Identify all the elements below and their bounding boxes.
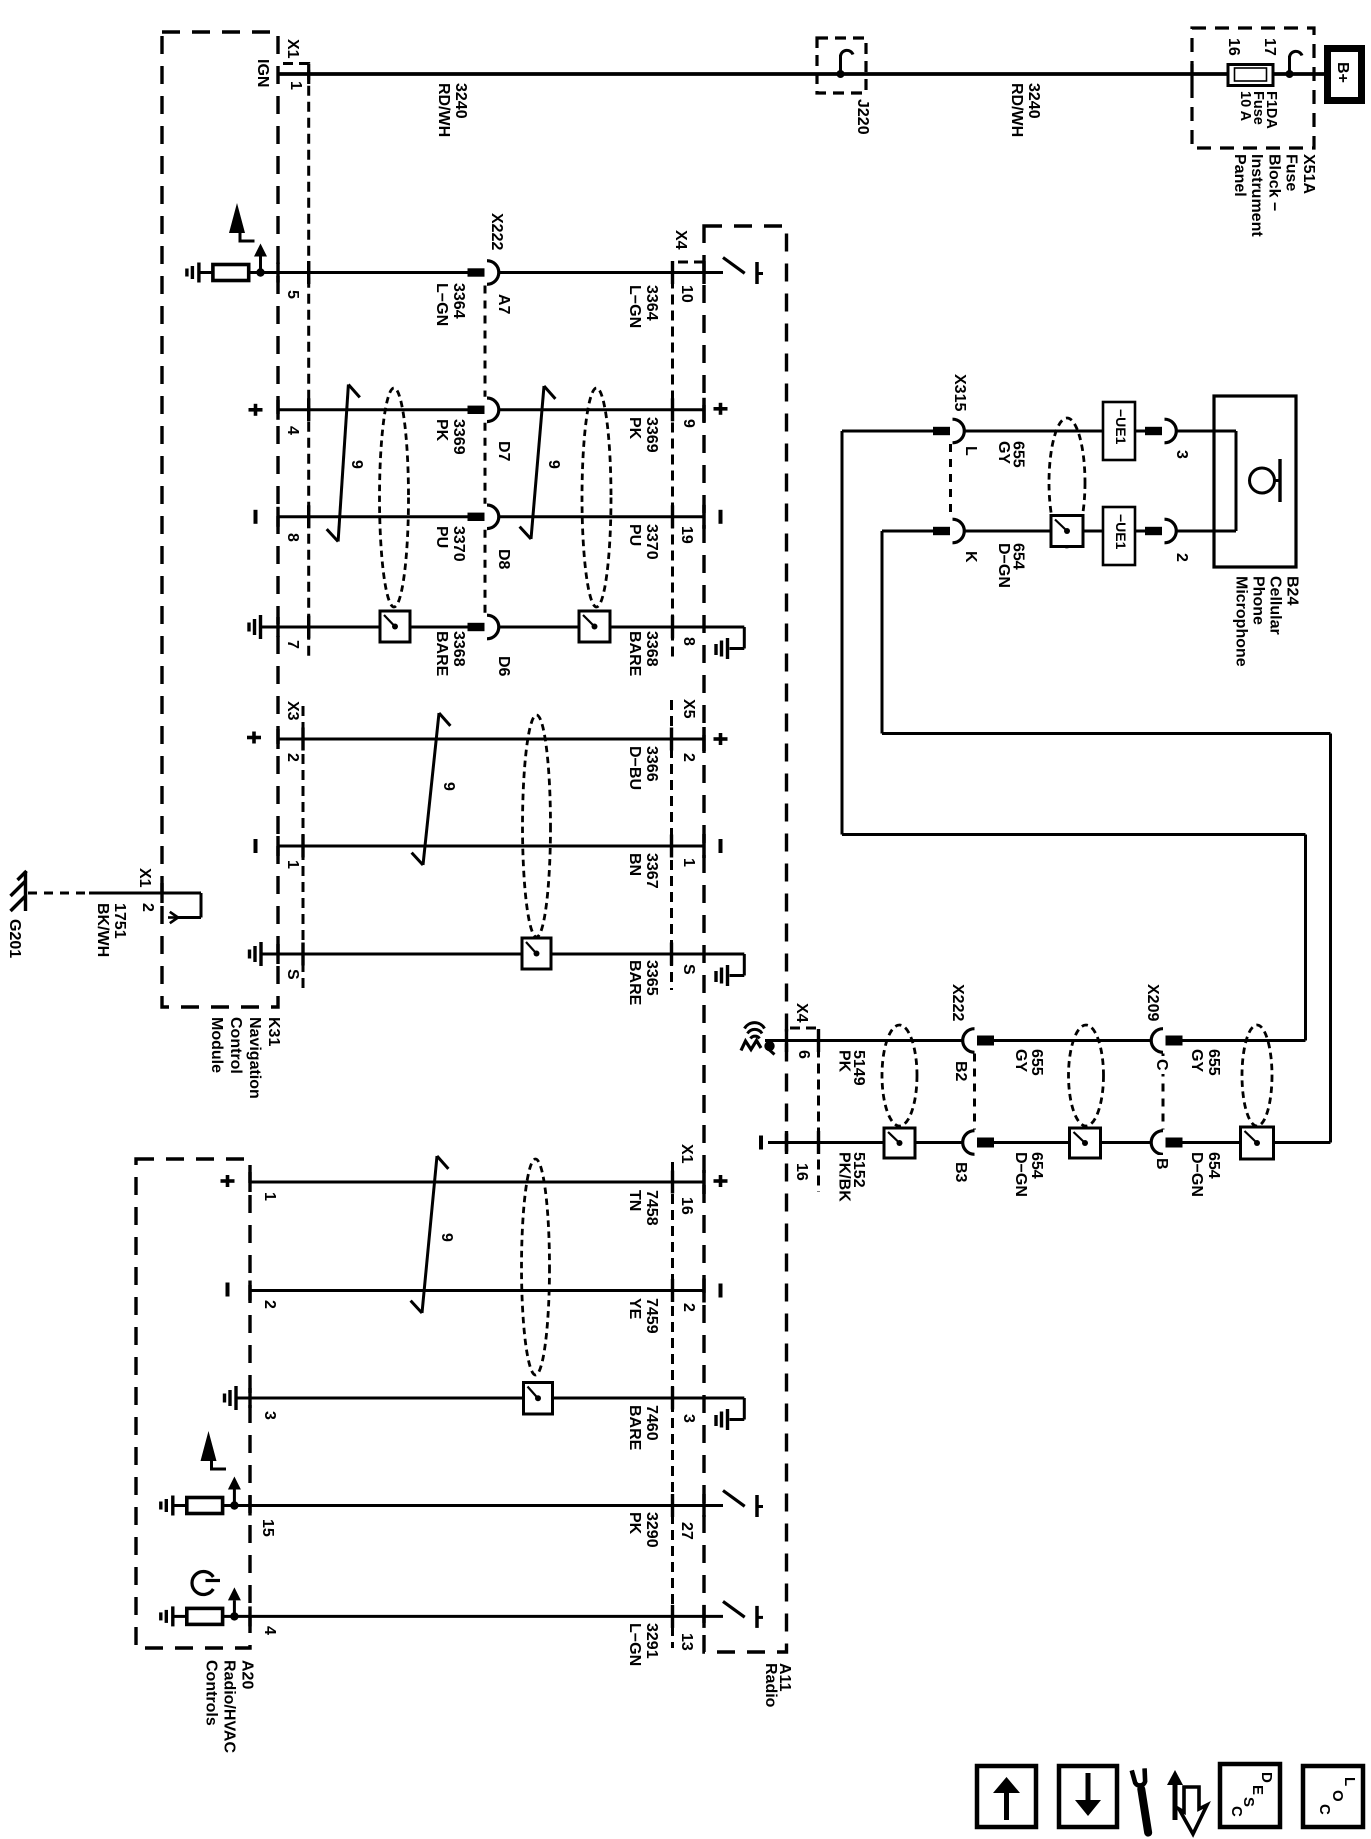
- svg-text:7458: 7458: [643, 1190, 660, 1226]
- svg-text:3: 3: [680, 1414, 697, 1423]
- svg-text:L−GN: L−GN: [626, 285, 643, 328]
- svg-text:BARE: BARE: [626, 1405, 643, 1451]
- svg-text:4: 4: [261, 1626, 278, 1635]
- svg-text:C: C: [1316, 1804, 1333, 1815]
- svg-text:Instrument: Instrument: [1248, 154, 1265, 237]
- svg-text:−UE1: −UE1: [1113, 409, 1129, 445]
- svg-text:3367: 3367: [643, 853, 660, 889]
- svg-text:3368: 3368: [450, 631, 467, 667]
- svg-text:Fuse: Fuse: [1283, 154, 1300, 191]
- svg-text:3369: 3369: [450, 419, 467, 455]
- svg-text:X1: X1: [284, 39, 301, 59]
- svg-text:A7: A7: [495, 294, 512, 315]
- svg-text:7460: 7460: [643, 1405, 660, 1441]
- svg-text:17: 17: [1261, 38, 1278, 56]
- svg-text:9: 9: [545, 460, 562, 469]
- svg-text:654: 654: [1205, 1152, 1222, 1179]
- svg-text:10 A: 10 A: [1237, 91, 1253, 122]
- svg-text:Cellular: Cellular: [1267, 576, 1284, 635]
- svg-text:27: 27: [678, 1522, 695, 1540]
- svg-text:7: 7: [284, 640, 301, 649]
- svg-text:BN: BN: [626, 853, 643, 876]
- svg-text:1: 1: [284, 860, 301, 869]
- svg-text:13: 13: [678, 1633, 695, 1651]
- svg-text:3368: 3368: [643, 631, 660, 667]
- svg-text:1751: 1751: [111, 903, 128, 939]
- svg-text:2: 2: [680, 753, 697, 762]
- svg-text:D−GN: D−GN: [995, 543, 1012, 588]
- svg-text:E: E: [1249, 1785, 1266, 1795]
- svg-text:L: L: [962, 446, 979, 456]
- svg-text:3365: 3365: [643, 960, 660, 996]
- svg-text:X4: X4: [672, 230, 689, 250]
- svg-text:PU: PU: [626, 524, 643, 546]
- svg-text:B24: B24: [1284, 576, 1301, 605]
- svg-text:9: 9: [440, 782, 457, 791]
- svg-text:5: 5: [284, 290, 301, 299]
- svg-text:16: 16: [678, 1197, 695, 1215]
- svg-text:B+: B+: [1334, 62, 1351, 83]
- svg-text:3: 3: [261, 1411, 278, 1420]
- svg-text:BK/WH: BK/WH: [94, 903, 111, 957]
- svg-text:GY: GY: [1012, 1049, 1029, 1072]
- svg-text:3370: 3370: [643, 524, 660, 560]
- svg-text:K31: K31: [265, 1017, 282, 1046]
- svg-text:−UE1: −UE1: [1113, 514, 1129, 550]
- svg-text:X4: X4: [793, 1003, 810, 1023]
- svg-text:Control: Control: [227, 1017, 244, 1074]
- svg-text:9: 9: [680, 419, 697, 428]
- svg-text:BARE: BARE: [626, 960, 643, 1006]
- svg-text:1: 1: [287, 81, 304, 90]
- svg-text:A20: A20: [239, 1660, 256, 1689]
- svg-text:Microphone: Microphone: [1233, 576, 1250, 667]
- svg-text:D−GN: D−GN: [1012, 1152, 1029, 1197]
- svg-text:S: S: [680, 964, 697, 975]
- svg-text:1: 1: [261, 1192, 278, 1201]
- svg-text:B3: B3: [952, 1162, 969, 1183]
- svg-text:3: 3: [1173, 450, 1190, 459]
- svg-text:S: S: [284, 969, 301, 980]
- svg-text:3240: 3240: [1025, 83, 1042, 119]
- svg-text:6: 6: [795, 1050, 812, 1059]
- svg-text:X5: X5: [680, 699, 697, 719]
- svg-text:2: 2: [139, 903, 156, 912]
- svg-text:B2: B2: [952, 1061, 969, 1082]
- svg-text:X209: X209: [1144, 984, 1161, 1021]
- svg-text:D−GN: D−GN: [1188, 1152, 1205, 1197]
- svg-text:D6: D6: [495, 656, 512, 677]
- svg-text:PK: PK: [433, 419, 450, 442]
- svg-text:3290: 3290: [643, 1512, 660, 1548]
- svg-text:655: 655: [1028, 1049, 1045, 1076]
- svg-text:O: O: [1329, 1790, 1346, 1802]
- svg-text:3366: 3366: [643, 746, 660, 782]
- svg-text:Block −: Block −: [1265, 154, 1282, 211]
- svg-text:8: 8: [284, 533, 301, 542]
- svg-text:J220: J220: [854, 99, 871, 135]
- svg-text:Navigation: Navigation: [246, 1017, 263, 1099]
- svg-text:D8: D8: [495, 549, 512, 570]
- svg-text:BARE: BARE: [433, 631, 450, 677]
- svg-text:9: 9: [348, 460, 365, 469]
- svg-text:2: 2: [261, 1300, 278, 1309]
- svg-text:3364: 3364: [450, 283, 467, 319]
- svg-text:L−GN: L−GN: [433, 283, 450, 326]
- svg-text:PK: PK: [626, 417, 643, 440]
- svg-text:3369: 3369: [643, 417, 660, 453]
- svg-text:G201: G201: [6, 919, 23, 958]
- svg-text:Radio/HVAC: Radio/HVAC: [221, 1660, 238, 1753]
- svg-text:8: 8: [680, 637, 697, 646]
- svg-text:Phone: Phone: [1250, 576, 1267, 625]
- svg-text:YE: YE: [626, 1298, 643, 1320]
- svg-text:RD/WH: RD/WH: [435, 83, 452, 137]
- svg-text:X1: X1: [678, 1144, 695, 1164]
- svg-text:X315: X315: [951, 374, 968, 411]
- svg-text:19: 19: [678, 526, 695, 544]
- svg-text:GY: GY: [1188, 1049, 1205, 1072]
- svg-text:2: 2: [284, 753, 301, 762]
- svg-text:L: L: [1341, 1777, 1358, 1786]
- svg-text:L−GN: L−GN: [626, 1623, 643, 1666]
- svg-text:Radio: Radio: [762, 1663, 779, 1708]
- svg-text:16: 16: [793, 1163, 810, 1181]
- svg-text:X222: X222: [488, 213, 505, 250]
- svg-text:RD/WH: RD/WH: [1008, 83, 1025, 137]
- svg-text:Controls: Controls: [203, 1660, 220, 1726]
- svg-text:GY: GY: [995, 441, 1012, 464]
- svg-text:Panel: Panel: [1231, 154, 1248, 197]
- svg-text:4: 4: [284, 426, 301, 435]
- svg-text:X3: X3: [284, 701, 301, 721]
- svg-text:654: 654: [1028, 1152, 1045, 1179]
- svg-text:7459: 7459: [643, 1298, 660, 1334]
- svg-text:PK: PK: [626, 1512, 643, 1535]
- svg-text:3291: 3291: [643, 1623, 660, 1659]
- svg-text:16: 16: [1225, 38, 1242, 56]
- svg-text:10: 10: [678, 285, 695, 303]
- svg-text:15: 15: [259, 1519, 276, 1537]
- svg-text:BARE: BARE: [626, 631, 643, 677]
- svg-text:PU: PU: [433, 526, 450, 548]
- svg-text:Module: Module: [208, 1017, 225, 1073]
- svg-text:PK/BK: PK/BK: [836, 1152, 853, 1202]
- svg-text:PK: PK: [836, 1050, 853, 1073]
- svg-text:D7: D7: [495, 441, 512, 462]
- svg-text:X1: X1: [136, 868, 153, 888]
- svg-text:C: C: [1228, 1806, 1245, 1817]
- svg-text:655: 655: [1205, 1049, 1222, 1076]
- svg-text:3370: 3370: [450, 526, 467, 562]
- svg-text:X51A: X51A: [1300, 154, 1317, 194]
- svg-text:D−BU: D−BU: [626, 746, 643, 790]
- svg-text:C: C: [1153, 1059, 1170, 1071]
- svg-text:9: 9: [438, 1233, 455, 1242]
- svg-text:1: 1: [680, 858, 697, 867]
- svg-text:D: D: [1258, 1772, 1275, 1783]
- svg-text:IGN: IGN: [254, 59, 271, 87]
- svg-text:2: 2: [1173, 553, 1190, 562]
- svg-text:3364: 3364: [643, 285, 660, 321]
- svg-text:3240: 3240: [452, 83, 469, 119]
- svg-text:B: B: [1153, 1158, 1170, 1170]
- svg-text:K: K: [962, 551, 979, 563]
- svg-text:TN: TN: [626, 1190, 643, 1211]
- svg-text:X222: X222: [949, 984, 966, 1021]
- svg-text:2: 2: [680, 1303, 697, 1312]
